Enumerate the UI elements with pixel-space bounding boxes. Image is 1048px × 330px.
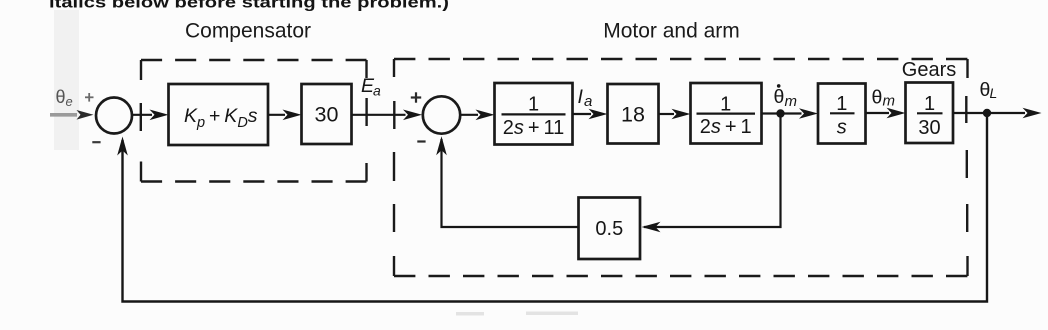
scan shading band left margin (54, 10, 79, 150)
plus sign at summing junction S2 (411, 92, 421, 102)
faint cropped figure caption smudge bottom (456, 312, 578, 316)
wire 30 block to summing junction S2 (352, 110, 423, 121)
svg-text:1: 1 (528, 94, 539, 116)
cropped caption text top (49, 0, 449, 12)
wire Kp block to 30 block (268, 110, 302, 121)
wire S1 to block Kp+KDs (133, 110, 169, 121)
svg-text:I: I (578, 86, 584, 108)
node thetadot_m junction dot (776, 109, 784, 117)
block 1/(2s+1) (691, 83, 762, 144)
wire 1/(2s+1) to block 1/s (762, 108, 819, 119)
svg-text:a: a (584, 93, 592, 110)
wire S2 to block 1/(2s+11) (461, 110, 495, 121)
block 0.5 (579, 198, 641, 260)
node label Ea (361, 75, 381, 99)
input arrowhead (77, 110, 94, 120)
label Gears (902, 59, 956, 81)
input wire (faded gray) (50, 113, 77, 117)
block Kp + KD s (169, 84, 269, 145)
svg-text:1: 1 (836, 93, 847, 115)
block 1/30 (gears) (906, 83, 954, 144)
minus sign at summing junction S2 (417, 140, 425, 142)
node label thetadot_m (774, 84, 798, 110)
wire 1/s to block 1/30 (866, 108, 906, 119)
svg-text:30: 30 (918, 117, 940, 139)
dashed box Motor and arm (394, 59, 968, 276)
wire inner feedback: thetadot_m node down and left into 0.5 block (642, 114, 781, 233)
svg-text:italics below before starting: italics below before starting the proble… (49, 0, 449, 12)
node label theta_L (980, 79, 998, 101)
svg-text:30: 30 (315, 103, 339, 127)
svg-text:2s + 1: 2s + 1 (700, 116, 752, 138)
label Compensator (185, 20, 311, 43)
svg-text:Gears: Gears (902, 59, 956, 81)
plus sign at summing junction S1 (85, 93, 94, 102)
svg-text:0.5: 0.5 (595, 218, 623, 240)
block 1/s (818, 84, 866, 144)
wire outer feedback: theta_L node down, left, and up into S1 (117, 113, 987, 302)
svg-text:L: L (990, 85, 998, 101)
svg-text:2s + 11: 2s + 11 (503, 117, 565, 139)
block 30 (302, 84, 352, 144)
input label theta_e (56, 87, 73, 109)
svg-text:Compensator: Compensator (185, 20, 311, 43)
svg-text:1: 1 (720, 93, 731, 115)
summing junction S1 (96, 98, 132, 134)
block 1/(2s+11) (495, 83, 573, 145)
wire 18 to block 1/(2s+1) (659, 109, 691, 120)
block 18 (608, 84, 659, 144)
wire 1/(2s+11) to block 18 (573, 109, 608, 120)
svg-text:m: m (785, 93, 798, 110)
minus sign at summing junction S1 (92, 141, 100, 143)
svg-text:Motor and arm: Motor and arm (603, 20, 740, 43)
svg-text:a: a (373, 83, 381, 99)
wire inner feedback: 0.5 block left then up into S2 (436, 136, 578, 227)
label Motor and arm (603, 20, 740, 43)
dashed box Compensator (141, 60, 367, 182)
svg-text:m: m (883, 93, 896, 110)
node theta_L junction dot (983, 109, 991, 117)
node label theta_m (872, 87, 896, 110)
svg-text:θ: θ (56, 87, 66, 107)
svg-text:θ: θ (774, 86, 785, 108)
svg-text:18: 18 (621, 103, 645, 127)
svg-text:θ: θ (872, 87, 883, 109)
svg-text:e: e (66, 94, 73, 109)
svg-text:s: s (837, 117, 847, 139)
svg-text:1: 1 (924, 93, 935, 115)
summing junction S2 (423, 96, 460, 133)
output wire with theta_L node (953, 108, 1042, 119)
node label Ia (578, 86, 593, 110)
